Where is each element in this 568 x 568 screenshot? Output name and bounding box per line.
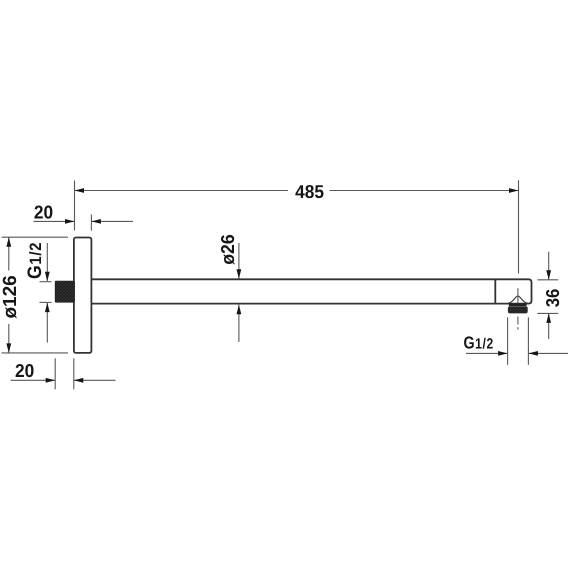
dimension G1/2 (outlet thread, bottom right) — [464, 317, 568, 365]
svg-text:36: 36 — [542, 289, 563, 308]
outlet center line — [517, 288, 519, 329]
dimension 20 (nipple protrusion, bottom left) — [11, 358, 116, 389]
dimension 485 (overall length) — [75, 180, 519, 273]
shower arm tube (horizontal) — [91, 279, 531, 303]
dimension G1/2 (wall nipple thread, left, rotated label) — [24, 242, 52, 343]
svg-text:ø126: ø126 — [0, 275, 21, 318]
knurled wall-connection nipple G1/2 — [55, 281, 74, 302]
end-piece divider line — [494, 279, 496, 303]
svg-text:ø26: ø26 — [217, 234, 238, 264]
svg-text:20: 20 — [34, 202, 53, 223]
dimension ø126 (flange diameter, left) — [0, 237, 68, 353]
svg-text:485: 485 — [295, 181, 324, 202]
dimension 36 (end piece height, right) — [537, 252, 562, 339]
svg-text:G1/2: G1/2 — [464, 332, 494, 352]
dimension ø26 (arm tube diameter, rotated label) — [217, 234, 242, 342]
dimension 20 (flange thickness, top) — [34, 202, 134, 231]
outlet cone inside end piece — [507, 296, 529, 304]
svg-text:G1/2: G1/2 — [24, 242, 46, 279]
wall flange plate (side view) — [74, 238, 92, 353]
outlet knurled nut G1/2 — [508, 303, 528, 313]
svg-text:20: 20 — [15, 360, 34, 381]
